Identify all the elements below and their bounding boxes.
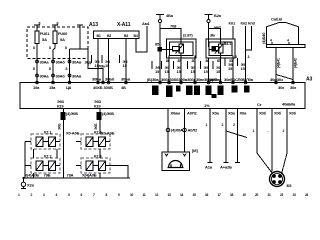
svg-text:30ХБ: 30ХБ — [104, 85, 114, 90]
wires K7.1 side pins — [25, 141, 60, 143]
svg-text:40ХБ: 40ХБ — [93, 85, 103, 90]
svg-text:В4: В4 — [134, 34, 138, 38]
wire terminal down to bus — [159, 51, 161, 82]
bus internal label E03 K19 right — [94, 99, 102, 109]
svg-text:Х(4)А0Б: Х(4)А0Б — [25, 173, 40, 178]
svg-text:(4)Б41: (4)Б41 — [277, 58, 281, 68]
svg-text:4: 4 — [287, 39, 289, 43]
svg-text:Б2а: Б2а — [214, 13, 222, 18]
wire bus to motor centre — [271, 109, 273, 172]
svg-text:Ст: Ст — [257, 102, 262, 107]
relay K1 inner box — [170, 42, 194, 56]
ground connector circle — [21, 182, 25, 186]
svg-text:(4)Э0Б: (4)Э0Б — [66, 111, 78, 116]
svg-text:86: 86 — [166, 59, 170, 63]
crossover diagonal heater wires — [276, 75, 293, 80]
svg-text:Х0-А0Б: Х0-А0Б — [66, 130, 80, 135]
fuse FU61 — [35, 31, 39, 44]
splice labels under K1 — [161, 61, 196, 74]
svg-text:(4)Э0Б: (4)Э0Б — [102, 111, 114, 116]
svg-text:17: 17 — [218, 193, 222, 197]
svg-text:11: 11 — [143, 193, 146, 197]
svg-text:30Бб: 30Бб — [105, 77, 115, 82]
relay K2 coil — [212, 47, 219, 51]
wire FU60 to bus — [53, 44, 55, 83]
horn dome symbol — [168, 161, 184, 168]
wire heater out left to bus — [275, 48, 277, 83]
wire bus to horn plus — [167, 109, 169, 153]
stub wires Rp2 Rp3 merged — [246, 26, 252, 83]
svg-text:FU60: FU60 — [58, 31, 68, 36]
svg-text:30х: 30х — [290, 85, 297, 90]
brace over heater wires — [266, 23, 299, 28]
bottom common wire 79B — [24, 177, 131, 179]
svg-text:8: 8 — [33, 67, 35, 71]
svg-text:Х0б: Х0б — [289, 111, 297, 116]
relay K2 armature diagonal — [215, 44, 223, 54]
fuse FU60 — [53, 31, 57, 44]
horn box — [162, 152, 190, 171]
svg-text:1%: 1% — [204, 103, 210, 108]
svg-text:23: 23 — [293, 193, 297, 197]
svg-text:Х0б: Х0б — [274, 111, 282, 116]
wire bus stub A2a with branch — [224, 109, 248, 163]
svg-text:30Ав: 30Ав — [72, 74, 82, 79]
svg-text:1: 1 — [206, 123, 208, 127]
wire X-A11 pin1 to bus — [97, 39, 99, 83]
svg-text:(Б)30в: (Б)30в — [147, 77, 159, 82]
svg-text:1: 1 — [253, 129, 255, 133]
wire K1 pin 30 to bus — [194, 56, 196, 83]
svg-text:12: 12 — [155, 193, 159, 197]
svg-text:К7.1: К7.1 — [44, 129, 52, 134]
svg-text:708: 708 — [170, 24, 177, 29]
relay element K7.3a — [86, 137, 93, 147]
svg-text:30ж30з: 30ж30з — [270, 77, 283, 82]
relay K1 contact — [179, 44, 184, 53]
svg-text:10: 10 — [130, 193, 134, 197]
wire bus stub A3a — [235, 109, 240, 163]
stub wire Rp1 — [232, 26, 234, 39]
relay element K7.4a — [86, 161, 93, 171]
wires K7.4 side pins — [76, 165, 110, 167]
pin labels K1 bottom — [166, 59, 195, 63]
relay module K7.3 dashed box — [81, 134, 110, 149]
relay module K7.1 dashed box — [31, 134, 60, 149]
svg-text:В1: В1 — [97, 34, 101, 38]
wire bus to K7 column2 — [99, 109, 101, 135]
junction dot bottom common — [22, 177, 24, 179]
svg-text:X-A11: X-A11 — [117, 22, 131, 28]
inter-row wires column2 — [99, 149, 101, 178]
svg-text:(4)Х0А: (4)Х0А — [171, 128, 183, 133]
svg-text:FU61: FU61 — [40, 31, 50, 36]
svg-text:5A: 5A — [42, 37, 47, 42]
svg-text:4Ба: 4Ба — [166, 13, 174, 18]
splice labels on X-A11 wires — [91, 55, 128, 68]
svg-text:Х0а: Х0а — [212, 111, 220, 116]
wire heater right lead — [298, 27, 300, 45]
wire 70B branch — [88, 59, 103, 83]
svg-text:3Б: 3Б — [210, 33, 215, 38]
svg-text:15а: 15а — [49, 85, 56, 90]
svg-text:15: 15 — [193, 193, 197, 197]
pin tick 4 left — [271, 42, 273, 45]
right stub column2 to common — [110, 166, 128, 179]
wire X-A11 pin4 to stub Am1 — [136, 26, 147, 52]
pin 8 top of FU60 — [52, 25, 58, 31]
motor B5 symbol — [270, 172, 285, 187]
wire terminal to relay K1 coil — [159, 23, 161, 47]
svg-text:30: 30 — [192, 59, 196, 63]
relay K1 armature diagonal — [176, 44, 184, 54]
wire third feed step — [70, 25, 89, 83]
svg-text:3: 3 — [235, 55, 237, 59]
svg-text:А3: А3 — [306, 77, 313, 83]
junction square relay K2 coil feed — [212, 47, 216, 51]
relay element K7.1a — [36, 137, 43, 147]
svg-text:30д: 30д — [85, 60, 92, 65]
pin labels K2 bottom — [206, 59, 233, 63]
svg-text:(4)Б42: (4)Б42 — [294, 58, 298, 68]
svg-text:[М]: [М] — [192, 148, 198, 153]
wire bus to motor left — [257, 109, 272, 174]
terminal clamp B2a — [205, 15, 213, 23]
svg-text:30х: 30х — [278, 85, 285, 90]
relay K1 contact to bottom pin — [180, 53, 182, 58]
wire 708 branch to K1 contact — [160, 29, 181, 45]
svg-text:Л0а: Л0а — [246, 77, 254, 82]
svg-text:19: 19 — [243, 193, 247, 197]
svg-text:Э0Б: Э0Б — [57, 123, 61, 130]
wire X-A11 pin2 to bus — [108, 39, 110, 83]
svg-text:А1а: А1а — [205, 165, 213, 170]
wire into coil K2 — [209, 48, 213, 50]
svg-text:78А: 78А — [67, 173, 74, 178]
terminal clamp 4Ba — [156, 15, 164, 23]
svg-text:85: 85 — [217, 59, 221, 63]
wire terminal2 branch to K2 contact — [209, 23, 221, 44]
svg-text:30Ба: 30Ба — [92, 77, 102, 82]
svg-text:Саб.В: Саб.В — [271, 17, 282, 22]
svg-text:2: 2 — [222, 123, 224, 127]
svg-text:Кп2 Кп3: Кп2 Кп3 — [241, 21, 256, 26]
splice label on wire 160 — [151, 61, 160, 74]
wire X-A11 pin3 to bus — [125, 39, 127, 83]
wire K1 pin 85 to bus — [180, 58, 182, 83]
wire bus stub A1a — [208, 109, 213, 163]
inline connector block col1 — [60, 112, 65, 120]
svg-text:К19: К19 — [94, 104, 101, 109]
svg-text:8: 8 — [39, 22, 41, 26]
connector X-A11 — [94, 31, 140, 39]
bus internal connector blocks — [152, 86, 250, 99]
wire heater out right to bus — [292, 48, 294, 83]
wire K7.2 bottom to common — [33, 173, 35, 178]
svg-text:(2.87): (2.87) — [183, 33, 193, 38]
heater element bar — [267, 45, 306, 48]
splice labels under K2 — [200, 58, 234, 74]
wire name labels above bus middle — [147, 77, 283, 82]
relay element K7.1b — [49, 137, 56, 147]
coordinate ruler numbers — [18, 193, 309, 197]
svg-text:22: 22 — [280, 193, 284, 197]
pin 8 top of FU61 — [34, 25, 40, 31]
left rail column1 — [24, 142, 26, 183]
central junction box (bus) — [20, 83, 305, 109]
svg-text:30Аа: 30Аа — [40, 74, 50, 79]
svg-text:Х0а: Х0а — [228, 111, 236, 116]
svg-text:14: 14 — [180, 193, 184, 197]
svg-text:30ба30бб30бв30бг: 30ба30бб30бв30бг — [161, 77, 196, 82]
relay module K7.2 dashed box — [31, 158, 60, 173]
bus internal labels right — [278, 85, 297, 90]
svg-text:К7.2: К7.2 — [44, 153, 52, 158]
wire K2 pin2 to bus — [220, 53, 222, 83]
svg-text:(4)Б40: (4)Б40 — [261, 32, 266, 44]
svg-text:30Аа: 30Аа — [40, 60, 50, 65]
wire heater left lead — [266, 27, 268, 45]
svg-text:К19: К19 — [57, 104, 64, 109]
svg-text:2: 2 — [233, 123, 235, 127]
svg-text:5A: 5A — [60, 37, 65, 42]
svg-text:Х0ам: Х0ам — [171, 111, 181, 116]
horn pin arrows — [165, 154, 186, 157]
svg-text:Х2а: Х2а — [27, 183, 35, 188]
wire terminal2 to K2 coil — [208, 29, 210, 48]
junction square relay K1 coil feed — [158, 47, 162, 51]
svg-text:20: 20 — [255, 193, 259, 197]
wire name labels second row under A13 — [33, 67, 82, 79]
wire K2 pin1 to bus — [208, 58, 210, 83]
svg-text:Ам1: Ам1 — [142, 21, 151, 26]
relay element K7.2b — [49, 161, 56, 171]
inter-row wires column1 — [34, 149, 58, 158]
svg-text:30Ав: 30Ав — [72, 60, 82, 65]
relay K2 inner box — [209, 42, 232, 56]
svg-text:3: 3 — [248, 55, 250, 59]
svg-text:2: 2 — [283, 129, 285, 133]
svg-text:8: 8 — [33, 46, 35, 50]
svg-text:4Б: 4Б — [121, 85, 126, 90]
svg-text:8: 8 — [57, 22, 59, 26]
wire FU61 to bus — [36, 44, 38, 83]
wire bus to motor right — [282, 109, 287, 174]
wires K7.3 side pins — [76, 141, 110, 143]
relay module K7.4 dashed box — [81, 158, 110, 173]
svg-text:4: 4 — [270, 39, 272, 43]
ground bar — [21, 187, 26, 189]
svg-text:79Б: 79Б — [44, 173, 51, 178]
svg-text:30Аб: 30Аб — [56, 60, 66, 65]
svg-text:30Аб: 30Аб — [56, 74, 66, 79]
svg-text:А+а2Б: А+а2Б — [220, 165, 232, 170]
svg-text:Х(4)А0Б: Х(4)А0Б — [82, 173, 97, 178]
inline connector block col2 — [96, 112, 101, 120]
svg-text:В2: В2 — [107, 34, 111, 38]
svg-text:A13: A13 — [89, 22, 98, 28]
wire into coil K1 — [162, 48, 173, 50]
relay K1 outer box — [167, 39, 197, 58]
svg-text:К7.4: К7.4 — [94, 153, 102, 158]
relay element K7.2a — [36, 161, 43, 171]
svg-text:13: 13 — [168, 193, 172, 197]
svg-text:21: 21 — [268, 193, 272, 197]
svg-text:А0Л2: А0Л2 — [188, 128, 198, 133]
svg-text:Э0Б: Э0Б — [94, 123, 98, 130]
splice label on merged stub — [237, 58, 246, 71]
svg-text:86: 86 — [206, 59, 210, 63]
svg-text:8: 8 — [65, 46, 67, 50]
svg-text:А0Л2: А0Л2 — [187, 111, 197, 116]
wire bus to K7 column1 — [63, 109, 65, 179]
tick labels on stub wires — [235, 55, 250, 59]
wire name labels above bus left-middle — [92, 77, 131, 82]
relay K1 coil — [173, 47, 180, 51]
svg-text:30вг30вд30ве: 30вг30вд30ве — [196, 77, 222, 82]
node row labels 30A0 under A13 — [36, 60, 92, 65]
svg-text:Кп1: Кп1 — [229, 21, 237, 26]
bus internal pin labels left — [33, 85, 126, 90]
svg-text:10а: 10а — [33, 85, 40, 90]
bus internal label E03 K19 left — [57, 99, 65, 109]
svg-text:16: 16 — [205, 193, 209, 197]
pin 8 top of third feed — [77, 25, 83, 31]
pin tick 4 right — [288, 42, 290, 45]
svg-text:24: 24 — [305, 193, 309, 197]
wires K7.2 side pins — [25, 165, 60, 167]
relay element K7.3b — [99, 137, 106, 147]
svg-text:Х0а: Х0а — [240, 111, 248, 116]
svg-text:85: 85 — [178, 59, 182, 63]
fuse block A13 dashed enclosure — [27, 27, 88, 59]
wire K1 pin 86 to bus — [168, 56, 170, 83]
relay element K7.4b — [99, 161, 106, 171]
svg-text:8: 8 — [49, 67, 51, 71]
svg-text:Х0б: Х0б — [259, 111, 267, 116]
svg-text:В3: В3 — [124, 34, 128, 38]
svg-text:40аБ0а: 40аБ0а — [282, 102, 296, 107]
svg-text:30еБ1СЛ0Б: 30еБ1СЛ0Б — [224, 77, 245, 82]
bus entry nodes — [36, 81, 295, 84]
svg-text:Х0-А0Б: Х0-А0Б — [101, 130, 115, 135]
connector node horn minus — [183, 128, 187, 132]
svg-text:8: 8 — [66, 67, 68, 71]
relay K2 outer box — [206, 39, 235, 58]
svg-text:18: 18 — [230, 193, 234, 197]
wire bus to horn minus — [184, 109, 186, 153]
relay K2 contact — [219, 44, 224, 53]
connector node horn plus — [166, 128, 170, 132]
svg-text:8: 8 — [49, 46, 51, 50]
wire K2 pin3 to bus — [232, 56, 234, 83]
